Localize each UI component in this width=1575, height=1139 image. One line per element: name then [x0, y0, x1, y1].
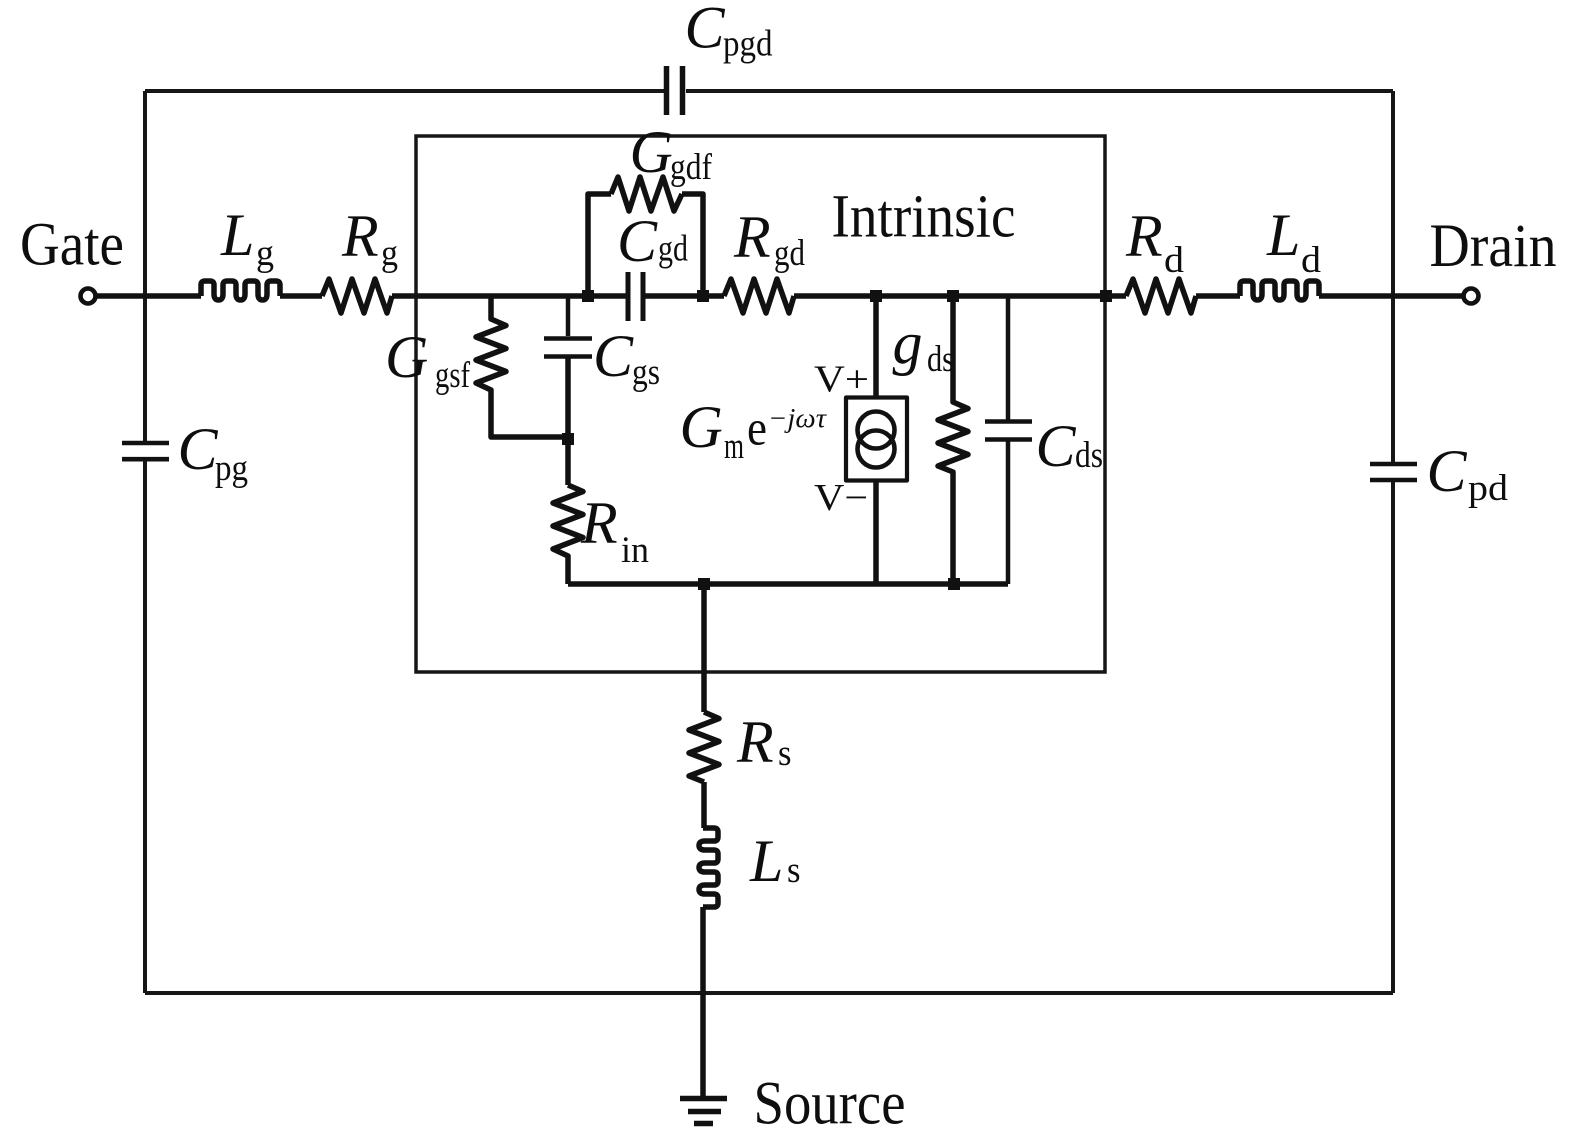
svg-text:ds: ds	[1075, 435, 1103, 476]
svg-text:G: G	[680, 394, 723, 460]
svg-text:s: s	[787, 850, 801, 891]
svg-text:e: e	[747, 400, 767, 456]
svg-text:gdf: gdf	[670, 147, 713, 188]
svg-text:d: d	[1164, 240, 1185, 281]
svg-text:L: L	[1266, 202, 1300, 268]
svg-text:Gate: Gate	[20, 212, 124, 279]
svg-text:C: C	[1427, 438, 1468, 504]
svg-text:G: G	[630, 119, 673, 185]
svg-text:R: R	[580, 490, 618, 556]
svg-text:G: G	[385, 324, 428, 390]
svg-text:g: g	[893, 310, 923, 376]
svg-text:L: L	[220, 202, 254, 268]
svg-text:R: R	[733, 204, 771, 270]
svg-text:−jωτ: −jωτ	[768, 403, 827, 433]
svg-text:gd: gd	[658, 229, 688, 270]
svg-text:R: R	[1125, 203, 1163, 269]
svg-text:g: g	[381, 233, 398, 274]
svg-text:L: L	[749, 828, 783, 894]
svg-text:m: m	[724, 426, 744, 467]
svg-text:pgd: pgd	[723, 24, 773, 65]
svg-text:in: in	[621, 530, 649, 571]
svg-text:pg: pg	[215, 448, 248, 489]
svg-text:Drain: Drain	[1430, 213, 1557, 280]
svg-text:gs: gs	[632, 352, 660, 393]
svg-text:Intrinsic: Intrinsic	[832, 184, 1016, 251]
svg-text:g: g	[256, 233, 274, 274]
svg-text:R: R	[341, 203, 379, 269]
svg-text:C: C	[178, 416, 219, 482]
svg-text:C: C	[593, 323, 634, 389]
svg-text:pd: pd	[1468, 468, 1509, 509]
svg-text:d: d	[1301, 240, 1322, 281]
svg-text:gd: gd	[774, 233, 805, 274]
svg-text:gsf: gsf	[435, 355, 471, 396]
svg-text:C: C	[1036, 413, 1077, 479]
svg-text:ds: ds	[927, 339, 954, 380]
svg-text:C: C	[617, 208, 658, 274]
svg-text:V−: V−	[814, 477, 868, 519]
svg-text:V+: V+	[814, 359, 869, 401]
svg-text:C: C	[685, 0, 726, 61]
svg-text:Source: Source	[754, 1071, 906, 1138]
svg-text:R: R	[736, 709, 774, 775]
svg-text:s: s	[778, 733, 792, 774]
